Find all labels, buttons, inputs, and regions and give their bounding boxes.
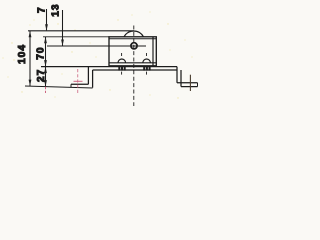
left step outer vertical (87, 67, 89, 85)
hole circle (131, 43, 137, 49)
extension line A dome top level (28, 30, 134, 32)
bottom arrow of dim 104 (29, 80, 32, 87)
arrow of dim 7 (45, 24, 48, 31)
svg-text:13: 13 (51, 3, 62, 16)
left stud block (118, 66, 125, 71)
left foot arc (118, 59, 126, 63)
right rail end cap (197, 83, 199, 87)
right step inner vertical (180, 70, 182, 87)
left rail top (71, 83, 88, 85)
right rail hole marker (189, 75, 191, 91)
svg-text:27: 27 (36, 69, 47, 82)
left rail hole marker pink (77, 69, 79, 94)
dimension line 7 (46, 9, 48, 30)
right rail top (177, 82, 198, 84)
body top inner line (109, 38, 156, 40)
right stud block (143, 66, 150, 71)
right rail bottom (181, 86, 198, 88)
dome on body top (124, 31, 144, 37)
arrow of dim 13 (61, 40, 64, 47)
bottom reference extension line (25, 86, 93, 88)
platform bottom line (93, 69, 177, 71)
dimension line 27 (45, 67, 47, 87)
body right inner wall (152, 37, 154, 66)
top arrow of dim 104 (29, 31, 32, 38)
feet seat line (109, 62, 156, 64)
mechanical dimension drawing of relay bracket (0, 0, 200, 109)
left rail end cap (70, 84, 72, 87)
left foot centreline below (121, 72, 123, 76)
platform top line with left extension (41, 66, 177, 68)
pink cross tick on left rail (74, 80, 83, 82)
body outline (109, 37, 156, 66)
right foot centreline below (146, 72, 148, 76)
svg-text:104: 104 (17, 44, 28, 64)
right step outer vertical (176, 67, 178, 83)
dimension line 70 (45, 37, 47, 67)
top arrow of dim 70 (44, 37, 47, 44)
left foot centreline above (121, 53, 123, 58)
svg-text:70: 70 (35, 46, 46, 59)
bottom arrow of dim 27 (44, 80, 47, 87)
right foot centreline above (146, 53, 148, 58)
top arrow of dim 27 (44, 67, 47, 74)
extension line B body top level (43, 36, 109, 38)
right foot arc (143, 59, 151, 63)
left step inner vertical (92, 70, 94, 88)
bottom arrow of dim 70 (44, 60, 47, 67)
dimension line 104 (29, 31, 31, 86)
svg-text:7: 7 (37, 6, 48, 13)
faint scan speckles (2, 11, 192, 98)
hole centre extension line (47, 45, 146, 47)
main dashed centreline (133, 26, 135, 107)
dimension line 13 (62, 10, 64, 46)
pink stub below 27 arrow (45, 87, 47, 93)
